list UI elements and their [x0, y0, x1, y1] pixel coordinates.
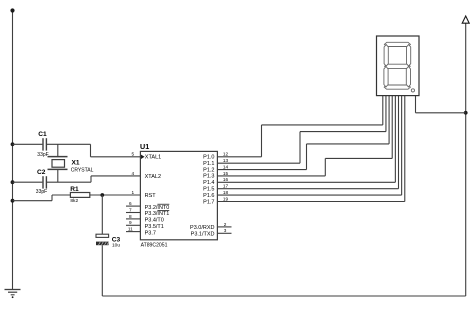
svg-text:8: 8 — [129, 214, 132, 219]
svg-text:C1: C1 — [38, 131, 47, 138]
svg-text:P1.1: P1.1 — [203, 161, 214, 167]
svg-text:13: 13 — [223, 158, 229, 163]
svg-text:C2: C2 — [37, 169, 46, 176]
svg-text:10u: 10u — [112, 243, 120, 249]
svg-text:P3.1/TXD: P3.1/TXD — [191, 231, 215, 237]
svg-text:14: 14 — [223, 165, 229, 170]
svg-text:P1.5: P1.5 — [203, 187, 214, 193]
svg-text:11: 11 — [128, 227, 133, 232]
svg-text:19: 19 — [223, 196, 229, 201]
svg-text:P1.6: P1.6 — [203, 193, 214, 199]
svg-text:P3.4/T0: P3.4/T0 — [145, 218, 164, 224]
svg-text:P1.3: P1.3 — [203, 174, 214, 180]
svg-text:9: 9 — [129, 220, 132, 225]
svg-text:P3.0/RXD: P3.0/RXD — [190, 225, 214, 231]
svg-text:2: 2 — [224, 222, 227, 227]
svg-text:17: 17 — [223, 184, 229, 189]
svg-text:P1.0: P1.0 — [203, 155, 214, 161]
svg-text:15: 15 — [223, 171, 229, 176]
svg-text:12: 12 — [223, 152, 229, 157]
svg-text:16: 16 — [223, 177, 229, 182]
svg-text:33pF: 33pF — [37, 152, 48, 158]
svg-text:R1: R1 — [70, 186, 79, 193]
svg-text:18: 18 — [223, 190, 229, 195]
svg-text:U1: U1 — [140, 142, 149, 151]
svg-text:CRYSTAL: CRYSTAL — [71, 168, 94, 174]
svg-text:4: 4 — [131, 171, 134, 176]
svg-text:RST: RST — [145, 193, 157, 199]
svg-text:8k2: 8k2 — [70, 198, 78, 204]
svg-text:7: 7 — [129, 207, 132, 212]
svg-text:5: 5 — [131, 152, 134, 157]
svg-text:6: 6 — [129, 201, 132, 206]
svg-text:XTAL2: XTAL2 — [145, 174, 161, 180]
svg-text:P1.2: P1.2 — [203, 167, 214, 173]
svg-text:X1: X1 — [72, 160, 80, 167]
svg-text:1: 1 — [131, 190, 134, 195]
svg-text:XTAL1: XTAL1 — [145, 155, 161, 161]
svg-text:3: 3 — [224, 228, 227, 233]
svg-text:P3.3/INT1: P3.3/INT1 — [145, 211, 170, 217]
svg-text:P1.7: P1.7 — [203, 199, 214, 205]
svg-text:C3: C3 — [112, 236, 121, 243]
svg-text:AT89C2051: AT89C2051 — [141, 242, 168, 248]
svg-text:33pF: 33pF — [36, 189, 47, 195]
svg-text:P3.2/INT0: P3.2/INT0 — [145, 205, 170, 211]
svg-text:P3.5/T1: P3.5/T1 — [145, 224, 164, 230]
svg-text:P3.7: P3.7 — [145, 230, 156, 236]
svg-text:P1.4: P1.4 — [203, 180, 214, 186]
